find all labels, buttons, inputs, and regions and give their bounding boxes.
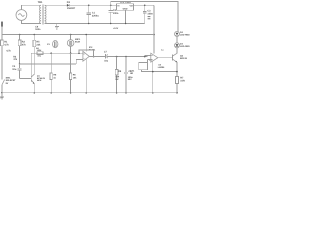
wire	[107, 56, 147, 58]
svg-text:50V: 50V	[128, 78, 132, 81]
wire op-amp V- to ground	[85, 59, 87, 93]
svg-text:GND: GND	[123, 8, 128, 11]
svg-text:1k: 1k	[53, 76, 56, 79]
AC source V1	[16, 10, 27, 21]
microphone MIC1	[67, 34, 81, 54]
wire op-amp U3 inputs	[145, 56, 151, 57]
resistor R9	[115, 56, 122, 93]
node / junction	[88, 5, 90, 7]
svg-text:C7: C7	[104, 50, 108, 53]
switch SW1	[2, 77, 16, 93]
svg-text:SW1: SW1	[6, 77, 12, 80]
node / junction	[144, 5, 146, 7]
svg-text:Q2: Q2	[180, 54, 184, 57]
svg-text:C9: C9	[35, 25, 39, 28]
node	[70, 52, 72, 54]
feedback wire	[79, 50, 94, 57]
svg-text:R8: R8	[73, 74, 77, 77]
svg-text:2200u: 2200u	[92, 14, 99, 17]
LED D2	[175, 31, 191, 37]
svg-text:4.7k: 4.7k	[6, 49, 11, 52]
svg-text:4.7k: 4.7k	[4, 44, 9, 47]
svg-text:10u: 10u	[104, 59, 109, 62]
svg-text:1N4007: 1N4007	[67, 7, 76, 10]
node	[144, 56, 146, 58]
svg-text:47k: 47k	[22, 44, 27, 47]
wire emitter	[176, 62, 178, 76]
ground	[0, 93, 4, 100]
svg-text:47k: 47k	[13, 58, 18, 61]
wire secondary top rail	[45, 4, 117, 6]
svg-text:ECM: ECM	[75, 41, 80, 44]
regulator IC1 7812	[117, 1, 134, 24]
op-amp U3	[151, 53, 165, 69]
node / junction	[110, 5, 112, 7]
top rail (unregulated)	[111, 1, 178, 31]
terminal mark top-left	[1, 22, 3, 27]
wire	[176, 36, 178, 42]
svg-text:22k: 22k	[36, 44, 41, 47]
svg-text:D3: D3	[180, 42, 184, 45]
svg-text:R6: R6	[53, 74, 57, 77]
output wire	[89, 56, 105, 58]
node	[1, 92, 3, 94]
svg-text:BD139: BD139	[180, 57, 188, 60]
wire + input	[76, 59, 83, 64]
svg-text:MIC1: MIC1	[75, 38, 81, 41]
svg-text:+12V: +12V	[113, 27, 119, 30]
resistor R8	[70, 53, 78, 93]
wire collector line / R5	[33, 35, 41, 76]
resistor R4	[36, 47, 43, 57]
transistor Q2	[158, 53, 188, 62]
svg-text:100n: 100n	[35, 28, 41, 31]
wire base feed	[20, 78, 32, 80]
svg-text:100n: 100n	[113, 12, 119, 15]
wire	[176, 48, 178, 54]
crystal X1	[47, 41, 58, 48]
node	[34, 92, 36, 94]
svg-text:LM386: LM386	[158, 66, 165, 69]
diode D1	[67, 1, 76, 10]
wire signal to op-amp	[30, 53, 32, 75]
svg-text:SW-SPST: SW-SPST	[6, 79, 17, 82]
capacitor C1	[87, 5, 100, 24]
resistor R6	[50, 52, 57, 92]
svg-text:D1: D1	[67, 1, 71, 4]
wire U3 gnd pin	[152, 61, 154, 92]
svg-text:D2: D2	[180, 31, 184, 34]
resistor R3	[18, 35, 26, 64]
wire regulator output	[134, 4, 155, 6]
svg-text:TR1: TR1	[38, 1, 43, 4]
+12V rail	[2, 34, 154, 36]
speaker LS1	[130, 59, 153, 76]
node	[19, 63, 21, 65]
ground rail bottom	[2, 92, 177, 94]
transformer TR1	[38, 1, 46, 24]
svg-text:R9: R9	[118, 70, 122, 73]
svg-text:NPN: NPN	[37, 79, 42, 82]
wire secondary bottom / ground rail	[45, 23, 145, 25]
capacitor C2	[109, 5, 119, 24]
capacitor C7 (series coupling)	[104, 50, 109, 62]
svg-text:1u: 1u	[161, 49, 164, 52]
svg-text:LED-RED: LED-RED	[180, 45, 190, 48]
transistor Q1	[31, 74, 45, 93]
svg-text:8R: 8R	[130, 72, 133, 75]
wire +12V vertical from regulator to rail and op-amp 2	[153, 5, 155, 53]
ground symbol (psu)	[55, 24, 59, 30]
svg-text:100n: 100n	[147, 12, 153, 15]
capacitor C3	[143, 5, 154, 23]
svg-text:10R: 10R	[180, 79, 185, 82]
svg-text:9V: 9V	[6, 82, 9, 85]
LED D3	[175, 42, 191, 48]
svg-text:10u: 10u	[37, 55, 41, 58]
op-amp IC2	[83, 34, 96, 62]
capacitor C4 (bias bypass)	[12, 64, 21, 79]
svg-text:10k: 10k	[73, 76, 77, 79]
svg-text:VI: VI	[117, 4, 119, 7]
wire bias to + input	[20, 63, 77, 65]
svg-text:LED-RED: LED-RED	[180, 34, 190, 37]
resistor R7	[176, 77, 185, 93]
wire	[21, 5, 39, 9]
svg-text:IC2: IC2	[89, 46, 93, 49]
wire - input	[78, 52, 80, 54]
wire speaker return	[142, 70, 178, 72]
resistor R1	[1, 35, 12, 80]
svg-text:10u: 10u	[12, 68, 17, 71]
svg-text:VO: VO	[130, 4, 133, 7]
svg-text:X1: X1	[47, 43, 50, 46]
wire	[21, 20, 39, 23]
svg-text:LS1: LS1	[130, 70, 135, 73]
capacitor C8	[124, 56, 133, 93]
